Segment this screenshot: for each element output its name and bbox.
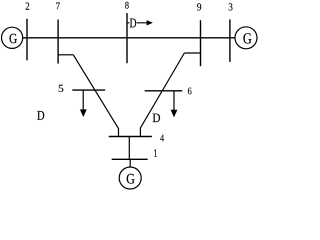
bus 4 [109, 136, 152, 138]
label bus 1 [154, 149, 157, 157]
label bus 9 [197, 3, 201, 10]
label bus 4 [160, 135, 164, 142]
bus 3 [229, 19, 231, 62]
bus 1 [112, 158, 148, 160]
bus 2 [26, 19, 28, 61]
wire bus 9 to transformer stub [184, 52, 200, 54]
wire bus 4 to bus 1 [128, 137, 130, 160]
wire bus 7 to transformer stub [58, 54, 73, 56]
wire line 9-4 diagonal [140, 53, 184, 128]
bus 9 [200, 20, 202, 66]
wire main horizontal tie line buses 2-7-8-9-3 [23, 37, 236, 39]
bus 7 [57, 20, 59, 64]
label bus 3 [229, 3, 233, 10]
label D (bus 5 load) [37, 111, 44, 120]
label D (bus 8 load) [129, 18, 136, 28]
label bus 8 [125, 2, 129, 9]
load arrow at bus 8 [127, 22, 147, 24]
generator G2 (bottom, at bus 1) [119, 167, 141, 189]
label D (bus 6 load) [153, 114, 160, 123]
wire bus 1 to generator [129, 159, 131, 167]
load arrow at bus 5 [82, 90, 84, 110]
label bus 2 [26, 2, 30, 9]
bus 5 [72, 89, 105, 91]
label bus 6 [188, 88, 192, 95]
label bus 5 [59, 85, 64, 92]
generator G3 (right, at bus 3) [235, 27, 257, 49]
generator G1 (left, at bus 2) [2, 27, 23, 48]
label bus 7 [56, 3, 60, 10]
wire stub into bus 4 (right) [139, 128, 141, 137]
wire stub into bus 4 (left) [118, 128, 120, 137]
load arrow at bus 6 [173, 91, 175, 111]
bus 8 [126, 13, 128, 63]
wire line 7-4 diagonal [73, 55, 118, 129]
bus 6 [145, 90, 183, 92]
